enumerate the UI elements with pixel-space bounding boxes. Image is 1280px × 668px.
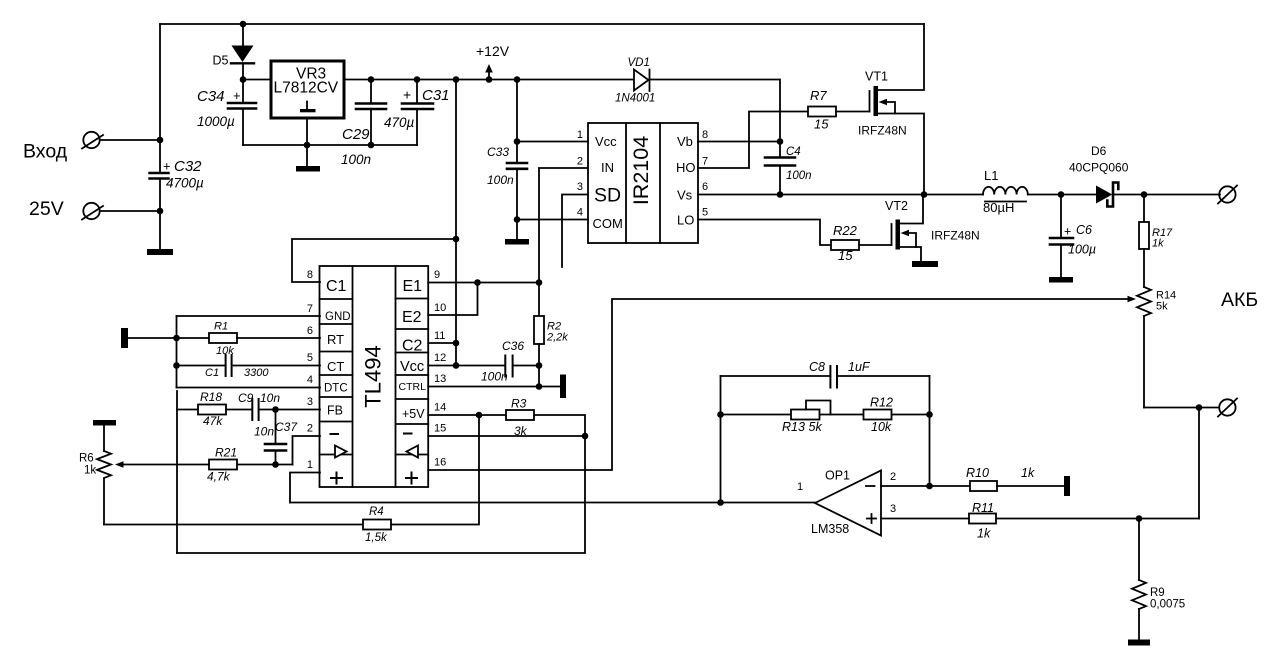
svg-text:100n: 100n	[487, 173, 514, 187]
svg-text:1N4001: 1N4001	[615, 93, 655, 105]
svg-text:1uF: 1uF	[848, 360, 871, 374]
label opamp plus	[867, 514, 876, 523]
junction pin15	[582, 433, 589, 440]
wire +12V vertical x456	[455, 80, 457, 366]
svg-text:12: 12	[434, 352, 446, 364]
svg-text:+: +	[233, 88, 241, 103]
wire R21 to pin2	[237, 464, 293, 466]
wire pin11 C2	[428, 342, 456, 344]
VR3 ground pin bar	[300, 102, 316, 113]
wire opamp out long	[290, 502, 815, 504]
svg-text:C1: C1	[205, 367, 219, 379]
ground C6	[1049, 277, 1073, 283]
svg-text:+: +	[1064, 225, 1071, 239]
svg-text:1: 1	[577, 129, 583, 141]
junction C37 R21	[272, 461, 279, 468]
wire pin10 E2	[428, 283, 477, 316]
svg-text:1k: 1k	[1021, 466, 1035, 480]
svg-text:2,2k: 2,2k	[546, 332, 568, 344]
junction E1 IN	[536, 279, 543, 286]
symbol amp2 triangle	[407, 446, 419, 458]
ground COM C33	[505, 239, 529, 245]
potentiometer R13	[791, 401, 831, 420]
svg-text:100n: 100n	[481, 370, 508, 384]
wire R6 bottom to R4	[104, 524, 363, 526]
svg-text:CTRL: CTRL	[399, 381, 427, 393]
wire VR3 gnd down	[306, 118, 308, 166]
potentiometer R14	[1137, 287, 1151, 408]
label C32	[163, 158, 202, 175]
diode VD1	[634, 70, 650, 92]
power +12V arrow	[485, 64, 493, 80]
capacitor C8	[830, 366, 837, 388]
svg-text:C32: C32	[174, 158, 202, 175]
svg-text:7: 7	[702, 156, 708, 168]
resistor R3	[506, 410, 534, 420]
svg-text:R18: R18	[200, 390, 222, 404]
svg-text:5: 5	[702, 207, 708, 219]
svg-text:IN: IN	[601, 160, 614, 175]
wire left vertical pins7-4	[176, 316, 178, 388]
junction R17 top	[1141, 191, 1148, 198]
wire pin16 to R14 arrow	[428, 296, 1136, 470]
label C6	[1064, 223, 1092, 239]
capacitor C4	[765, 158, 795, 195]
resistor R11	[969, 514, 996, 524]
IC U1 TL494 box	[320, 266, 429, 487]
wire left vertical lower	[176, 391, 178, 553]
svg-text:15: 15	[838, 248, 853, 263]
wire R21 to R6 arrow	[115, 461, 209, 467]
junction C2	[453, 340, 460, 347]
svg-text:5: 5	[307, 352, 313, 364]
capacitor C1	[226, 355, 232, 376]
label pin 16 plus	[406, 473, 417, 484]
junction CTRL R2	[536, 383, 543, 390]
wire R4 to pin14 node	[391, 415, 479, 525]
terminal output minus	[1218, 399, 1237, 417]
svg-text:IRFZ48N: IRFZ48N	[931, 229, 980, 243]
wire HO pin7 to R7	[698, 112, 808, 169]
svg-text:10k: 10k	[871, 420, 892, 434]
svg-text:1,5k: 1,5k	[365, 532, 388, 544]
svg-text:C4: C4	[786, 146, 801, 158]
wire mid to R13	[721, 414, 792, 416]
svg-text:Vb: Vb	[677, 134, 693, 149]
junction output minus	[1196, 404, 1203, 411]
svg-text:2: 2	[307, 423, 313, 435]
junction rail x456	[453, 76, 460, 83]
junction C31 top	[414, 76, 421, 83]
junction +5V R4	[476, 412, 483, 419]
svg-text:8: 8	[702, 129, 708, 141]
svg-text:R7: R7	[810, 88, 827, 103]
wire RT left	[128, 337, 209, 339]
svg-text:2: 2	[890, 471, 896, 483]
junction R2 C36	[536, 362, 543, 369]
wire top rail	[160, 23, 924, 25]
svg-text:9: 9	[434, 269, 440, 281]
wire pin2 to R10	[881, 485, 970, 487]
svg-text:R22: R22	[833, 223, 858, 238]
wire CT left	[177, 365, 226, 367]
junction CT	[173, 362, 180, 369]
junction pin8 +12V	[453, 236, 460, 243]
terminator RT bar	[121, 328, 128, 348]
svg-text:1k: 1k	[1152, 238, 1164, 250]
wire LO pin5 to R22	[698, 220, 831, 246]
svg-text:E2: E2	[402, 309, 422, 326]
svg-text:GND: GND	[325, 311, 351, 323]
resistor R22	[831, 240, 859, 250]
svg-text:15: 15	[814, 117, 829, 132]
svg-text:VT2: VT2	[885, 199, 908, 213]
junction E1 E2	[474, 279, 481, 286]
diode D5	[231, 24, 254, 80]
svg-text:13: 13	[434, 373, 446, 385]
svg-text:3: 3	[577, 181, 583, 193]
svg-text:4,7k: 4,7k	[207, 470, 231, 484]
svg-text:R9: R9	[1150, 587, 1165, 599]
inductor L1	[983, 187, 1028, 202]
svg-text:R4: R4	[369, 506, 384, 518]
wire R10 to bar	[997, 485, 1064, 487]
svg-text:+: +	[163, 159, 171, 174]
wire Vcc pin1	[517, 141, 588, 143]
junction opamp out feedback	[717, 499, 724, 506]
wire output minus to terminal	[1199, 407, 1219, 409]
junction C6 top	[1058, 191, 1065, 198]
wire VR3 out	[344, 79, 634, 81]
svg-text:C6: C6	[1076, 223, 1092, 237]
terminator CTRL bar	[560, 375, 566, 399]
junction R9 top	[1136, 515, 1143, 522]
capacitor C33	[507, 80, 527, 240]
svg-text:0,0075: 0,0075	[1150, 599, 1185, 611]
op-amp OP1	[815, 471, 881, 536]
label C31	[403, 87, 450, 105]
svg-text:1000µ: 1000µ	[197, 114, 235, 129]
label C34	[197, 88, 241, 105]
wire pin7 GND	[177, 315, 321, 317]
label pin 2 minus	[331, 433, 339, 435]
junction Vs VT	[921, 191, 928, 198]
svg-text:C9: C9	[238, 391, 254, 405]
svg-text:10n: 10n	[260, 391, 280, 405]
wire pin13 CTRL	[428, 386, 560, 388]
svg-text:COM: COM	[593, 216, 623, 231]
svg-text:10n: 10n	[254, 425, 274, 439]
junction C4 Vs	[777, 191, 784, 198]
ground VT2	[912, 261, 938, 267]
diode D6 schottky	[1096, 183, 1118, 207]
svg-text:C2: C2	[402, 338, 423, 355]
svg-text:LM358: LM358	[811, 522, 849, 536]
label pin 1 plus	[331, 473, 342, 484]
voltage regulator VR3	[271, 61, 344, 118]
svg-text:RT: RT	[327, 332, 344, 347]
wire VD1 to Vb corner	[650, 80, 781, 157]
svg-text:C29: C29	[342, 126, 370, 143]
svg-text:+: +	[403, 87, 411, 103]
wire pin4 DTC	[177, 387, 321, 389]
transistor VT1	[870, 24, 925, 195]
svg-text:R13: R13	[782, 420, 805, 434]
junction D5 top	[240, 21, 247, 28]
svg-text:CT: CT	[327, 359, 344, 374]
svg-text:VD1: VD1	[628, 57, 650, 69]
resistor R10	[970, 481, 997, 491]
capacitor C9	[252, 399, 258, 420]
capacitor C32	[150, 173, 169, 250]
capacitor C37	[265, 410, 286, 465]
wire output minus down	[1198, 408, 1200, 519]
wire Vb pin8	[698, 141, 780, 143]
resistor R12	[864, 410, 892, 420]
svg-text:100n: 100n	[341, 152, 371, 167]
svg-text:Vcc: Vcc	[400, 359, 424, 375]
wire R13 to R12	[820, 414, 864, 416]
junction input plus	[157, 137, 164, 144]
svg-text:IRFZ48N: IRFZ48N	[858, 124, 907, 138]
svg-text:TL494: TL494	[360, 345, 385, 407]
svg-text:5k: 5k	[1156, 301, 1168, 313]
svg-text:LO: LO	[677, 213, 694, 228]
terminal output plus	[1218, 186, 1237, 204]
resistor R18	[198, 405, 226, 415]
junction FB C37	[272, 406, 279, 413]
label pin 15 minus	[404, 433, 412, 435]
svg-text:470µ: 470µ	[384, 115, 415, 130]
wire IN pin2	[539, 168, 588, 283]
svg-text:47k: 47k	[203, 414, 223, 428]
wire SD pin3	[562, 195, 588, 268]
svg-text:5k: 5k	[809, 420, 823, 434]
wire C36 to R2	[513, 365, 539, 367]
wire input plus to C32	[100, 139, 160, 141]
capacitor C34	[228, 80, 256, 146]
svg-text:1: 1	[797, 481, 803, 493]
svg-text:R11: R11	[972, 501, 994, 515]
capacitor C31	[402, 80, 433, 146]
junction RT	[173, 335, 180, 342]
wire pin12 Vcc to C36	[428, 365, 505, 367]
ground C32	[147, 249, 173, 255]
svg-text:C37: C37	[275, 420, 298, 434]
terminal input minus	[82, 203, 103, 220]
svg-text:SD: SD	[594, 185, 621, 207]
svg-text:R12: R12	[870, 396, 893, 410]
svg-text:АКБ: АКБ	[1221, 289, 1258, 311]
wire D5 to VR3	[243, 79, 271, 81]
wire pin9 E1	[428, 282, 539, 284]
svg-text:16: 16	[434, 457, 446, 469]
svg-text:FB: FB	[327, 404, 343, 418]
capacitor C6	[1050, 195, 1073, 278]
svg-text:+12V: +12V	[476, 43, 510, 59]
wire psu bottom rail	[243, 144, 417, 146]
svg-text:1: 1	[307, 459, 313, 471]
wire feedback right vertical	[929, 376, 931, 486]
svg-text:C33: C33	[487, 145, 509, 159]
svg-text:OP1: OP1	[825, 469, 850, 483]
wire C1 to pin5	[232, 365, 320, 367]
wire left vertical top	[159, 24, 161, 173]
svg-text:1k: 1k	[84, 465, 96, 477]
wire feedback top right	[838, 375, 930, 377]
wire D6 to terminal	[1114, 194, 1220, 196]
wire R14 to output minus	[1144, 407, 1199, 409]
wire R12 to right vertical	[892, 414, 930, 416]
potentiometer R6	[97, 426, 111, 525]
label opamp minus	[866, 485, 875, 487]
wire R11 to output minus	[996, 518, 1199, 520]
wire R7 to VT1 gate	[836, 111, 870, 113]
svg-text:VT1: VT1	[865, 70, 888, 84]
svg-text:6: 6	[702, 181, 708, 193]
svg-text:11: 11	[434, 330, 445, 342]
svg-text:R21: R21	[215, 446, 237, 460]
svg-text:DTC: DTC	[324, 383, 348, 395]
svg-text:6: 6	[307, 325, 313, 337]
wire pin3 to R11	[881, 518, 969, 520]
junction VR3 gnd rail	[304, 142, 311, 149]
junction Vcc x456	[453, 362, 460, 369]
wire input minus to C32	[100, 210, 160, 212]
wire pin15	[428, 435, 585, 437]
wire COM pin4	[517, 219, 588, 221]
resistor R7	[808, 107, 836, 117]
wire L1 to D6	[1028, 194, 1096, 196]
wire Vs rail	[698, 194, 983, 196]
terminator R6 top bar	[93, 420, 116, 426]
svg-text:100n: 100n	[786, 170, 812, 182]
svg-text:D6: D6	[1091, 144, 1107, 158]
svg-text:E1: E1	[403, 278, 423, 295]
junction C29 top	[368, 76, 375, 83]
svg-text:3: 3	[307, 396, 313, 408]
wire R1 to pin6	[237, 337, 320, 339]
ground VR3	[296, 166, 320, 172]
transistor VT2	[892, 195, 924, 262]
capacitor C36	[505, 356, 512, 377]
svg-text:Вход: Вход	[23, 141, 68, 163]
junction C33 Vcc	[514, 138, 521, 145]
wire bottom rail pin15	[177, 436, 585, 553]
svg-text:1k: 1k	[977, 527, 991, 541]
junction feedback mid left	[717, 411, 724, 418]
svg-text:HO: HO	[676, 160, 696, 175]
svg-text:L7812CV: L7812CV	[274, 80, 339, 97]
wire feedback top left	[721, 375, 831, 377]
IC U2 IR2104 box	[588, 123, 698, 243]
svg-text:4700µ: 4700µ	[166, 176, 204, 191]
junction +12V	[486, 76, 493, 83]
wire pin8 to +12V line	[292, 239, 456, 282]
svg-text:R10: R10	[966, 466, 989, 480]
svg-text:D5: D5	[213, 54, 229, 68]
wire R18 left stub	[177, 409, 198, 411]
junction C33 COM	[514, 216, 521, 223]
capacitor C29	[356, 80, 386, 146]
svg-text:7: 7	[307, 303, 313, 315]
svg-text:40CPQ060: 40CPQ060	[1069, 161, 1129, 175]
terminator R10 bar	[1064, 476, 1070, 496]
ground R9	[1128, 640, 1150, 646]
wire pin1 to opamp out	[290, 473, 320, 503]
resistor R1	[209, 333, 237, 343]
svg-text:IR2104: IR2104	[629, 136, 653, 205]
svg-text:25V: 25V	[29, 198, 64, 220]
svg-text:Vs: Vs	[677, 188, 693, 203]
svg-text:C31: C31	[422, 87, 450, 104]
junction input minus	[157, 208, 164, 215]
svg-text:14: 14	[434, 402, 446, 414]
svg-text:C1: C1	[326, 278, 347, 295]
svg-text:4: 4	[307, 374, 313, 386]
svg-text:R1: R1	[214, 321, 228, 333]
svg-text:2: 2	[577, 156, 583, 168]
svg-text:Vcc: Vcc	[595, 134, 617, 149]
junction pin2 feedback	[926, 483, 933, 490]
svg-text:R3: R3	[511, 397, 527, 411]
resistor R21	[209, 460, 237, 470]
svg-text:15: 15	[434, 423, 446, 435]
svg-text:+5V: +5V	[402, 407, 425, 421]
wire C9 to pin3 FB	[259, 409, 320, 411]
svg-text:C36: C36	[502, 339, 524, 353]
svg-text:100µ: 100µ	[1068, 243, 1096, 257]
junction feedback mid right	[926, 411, 933, 418]
junction D5 bottom	[240, 76, 247, 83]
wire pin14 +5V	[428, 414, 506, 416]
resistor R4	[363, 520, 391, 530]
svg-text:C8: C8	[809, 360, 825, 374]
resistor R2	[534, 283, 544, 387]
svg-text:R6: R6	[79, 453, 94, 465]
wire R3 to pin15	[534, 415, 585, 436]
wire R22 to VT2 gate	[859, 244, 892, 246]
junction Vb	[777, 138, 784, 145]
wire R18 to C9	[226, 409, 252, 411]
svg-text:10: 10	[434, 302, 446, 314]
terminal input plus	[82, 132, 103, 149]
junction rail x517	[514, 76, 521, 83]
wire pin2 down	[293, 436, 321, 465]
resistor R9 shunt	[1132, 519, 1146, 640]
symbol amp1 triangle	[335, 446, 347, 458]
svg-text:8: 8	[307, 269, 313, 281]
resistor R17	[1139, 195, 1149, 288]
svg-text:4: 4	[577, 207, 583, 219]
svg-text:3300: 3300	[244, 367, 269, 379]
svg-text:C34: C34	[197, 88, 225, 105]
svg-text:L1: L1	[984, 168, 998, 183]
svg-text:80µH: 80µH	[983, 200, 1014, 215]
svg-text:3: 3	[890, 503, 896, 515]
junction C29 bottom	[368, 142, 375, 149]
wire feedback left vertical	[720, 376, 722, 503]
